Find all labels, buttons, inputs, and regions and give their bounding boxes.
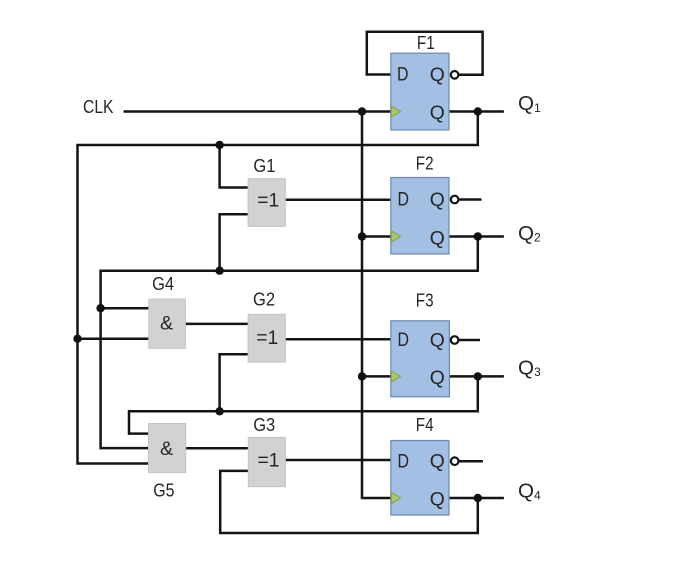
svg-text:G5: G5 — [153, 480, 174, 501]
wire F2 clock stub — [362, 235, 391, 238]
svg-text:Q: Q — [430, 190, 445, 211]
wire G3 output to F4 D — [285, 459, 390, 462]
flip-flop F2 — [391, 153, 459, 254]
wire G4 input1 tap from rail2 — [101, 307, 149, 310]
wire G1 output to F2 D — [285, 199, 391, 202]
wire CLK horizontal to F1 clock — [124, 110, 391, 113]
wire F1 Q output to Q1 — [449, 110, 504, 113]
wire F4 clock elbow stub — [362, 497, 391, 498]
junction F2 clock tap — [358, 232, 366, 240]
wire G4 input2 tap from rail1 — [78, 337, 149, 340]
gate G2 XOR =1 — [248, 289, 285, 362]
svg-text:F2: F2 — [416, 153, 434, 174]
junction G4 input1 tap — [96, 304, 104, 312]
wire F2 Q feedback: down, left along y=270.7, rail2 down, into G5 input 2 — [101, 237, 478, 449]
junction Q1 output — [474, 107, 482, 115]
svg-text:D: D — [398, 451, 410, 472]
flip-flop F3 — [391, 290, 459, 397]
gate G3 XOR =1 — [248, 414, 285, 487]
wire F3 Q feedback: down, left along y=411.3, down at x=129, into G5 input 1 — [129, 376, 478, 433]
svg-text:=1: =1 — [258, 450, 280, 471]
svg-text:G3: G3 — [253, 414, 275, 435]
gate G4 AND & — [149, 273, 186, 348]
wire F3 clock stub — [362, 375, 391, 378]
junction G4 input2 tap — [73, 335, 81, 343]
svg-text:&: & — [160, 438, 173, 460]
gate G1 XOR =1 — [248, 155, 285, 227]
svg-text:D: D — [398, 330, 410, 351]
junction G1 input2 tap — [215, 267, 223, 275]
wire F2 Q output to Q2 — [449, 235, 504, 238]
svg-text:Q: Q — [430, 330, 445, 351]
svg-text:Q: Q — [430, 103, 445, 124]
svg-text:F4: F4 — [416, 414, 434, 435]
junction Q2 output — [474, 232, 482, 240]
svg-text:G1: G1 — [253, 155, 275, 176]
junction Q4 output — [474, 494, 482, 502]
svg-text:D: D — [397, 65, 409, 86]
wire F4 Q output to Q4 — [449, 497, 504, 500]
svg-text:G4: G4 — [152, 273, 174, 294]
svg-text:F3: F3 — [416, 290, 434, 311]
wire F3 Q output to Q3 — [449, 375, 504, 378]
junction G1 input1 tap — [215, 141, 223, 149]
wire G4 output to G2 input1 — [185, 323, 248, 326]
wire F1 Qbar feedback loop to D — [367, 32, 483, 75]
junction G2 input2 tap — [215, 407, 223, 415]
svg-text:Q: Q — [430, 490, 445, 511]
svg-text:=1: =1 — [257, 191, 279, 212]
svg-text:Q: Q — [430, 452, 445, 473]
svg-text:Q: Q — [430, 229, 445, 250]
wire clock rail vertical x=362 — [361, 112, 364, 499]
svg-text:CLK: CLK — [83, 96, 114, 117]
junction F3 clock tap — [358, 372, 366, 380]
wire G5 output to G3 input1 — [186, 447, 249, 450]
gate G5 AND & — [149, 424, 186, 501]
svg-text:Q: Q — [430, 65, 445, 86]
wire F4 Q feedback: down, left along y=533, up at x=220.2, into G3 input2 — [220, 471, 478, 533]
wire F4 Qbar stub — [459, 460, 483, 463]
wire G2 input2 tap from y=411.3 line — [220, 354, 249, 411]
svg-text:D: D — [398, 189, 410, 210]
wire F2 Qbar stub — [458, 198, 481, 201]
wire G1 input1 tap from y=145 line — [220, 145, 249, 188]
svg-text:G2: G2 — [253, 289, 275, 310]
svg-text:&: & — [160, 313, 173, 335]
svg-text:Q: Q — [430, 368, 445, 389]
svg-text:F1: F1 — [417, 32, 435, 53]
wire F3 Qbar stub — [458, 339, 480, 342]
svg-text:=1: =1 — [256, 328, 278, 349]
flip-flop F1 — [391, 32, 459, 130]
wire G1 input2 tap from y=270.7 line — [220, 214, 249, 270]
wire F1 Q feedback: down, left along y=145, rail1 down, into G5 input 3 — [78, 112, 478, 464]
junction Q3 output — [474, 372, 482, 380]
flip-flop F4 — [391, 414, 459, 515]
wire G2 output to F3 D — [285, 338, 391, 341]
junction CLK rail tap — [358, 107, 366, 115]
